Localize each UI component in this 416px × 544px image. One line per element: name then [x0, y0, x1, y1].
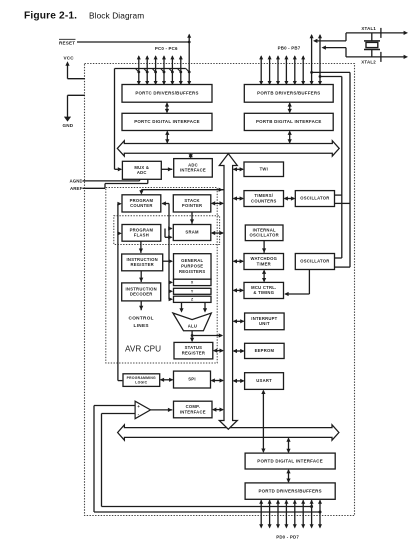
pin PB5: [301, 55, 305, 85]
svg-text:CONTROL: CONTROL: [129, 316, 154, 321]
arrow ADC interface <-> data bus: [189, 153, 193, 159]
arrow SRAM <-> data bus: [211, 231, 224, 235]
block MCU ctrl & timing: [244, 282, 284, 298]
block PORTC drivers/buffers: [122, 85, 212, 103]
crystal Y1: [364, 33, 380, 57]
block stack pointer: [173, 195, 211, 212]
svg-text:GENERAL: GENERAL: [181, 258, 203, 263]
arrow data bus <-> watchdog timer: [233, 259, 244, 263]
ground symbol: [64, 117, 71, 122]
arrow MUX & ADC -> ADC interface: [161, 167, 172, 171]
svg-text:ADC: ADC: [188, 162, 198, 167]
wire PB6/XTAL1 to oscillators (vertical x=350): [312, 72, 350, 267]
block program counter: [122, 195, 161, 212]
wire program counter / flash to programming logic (left vertical): [118, 204, 123, 381]
block programming logic: [123, 374, 160, 387]
wire oscillator stub upper: [335, 194, 342, 196]
svg-text:PORTC DIGITAL INTERFACE: PORTC DIGITAL INTERFACE: [134, 119, 200, 124]
wire XTAL1 rail: [346, 28, 408, 38]
wire GND: [68, 95, 86, 117]
arrow data bus <-> interrupt unit: [233, 319, 245, 323]
block comparator interface: [174, 401, 213, 418]
arrow comp interface <-> data bus: [212, 408, 224, 412]
analog comparator: [135, 401, 150, 419]
arrow status register <-> data bus: [213, 349, 224, 353]
wire SRAM <-> registers (second tap): [165, 229, 173, 240]
block TWI: [244, 162, 284, 177]
svg-text:POINTER: POINTER: [182, 203, 202, 208]
arrow watchdog timer <-> MCU ctrl: [262, 270, 266, 283]
block timers/counters: [244, 191, 284, 207]
pin PC3: [161, 55, 166, 85]
arrow programming logic <-> SPI: [160, 378, 174, 382]
wire data bus -> program counter: [139, 188, 224, 195]
arrow instruction decoder -> control lines: [139, 301, 143, 310]
arrow PORTB drivers <-> digital interface: [288, 102, 292, 113]
svg-text:PROGRAMMING: PROGRAMMING: [127, 376, 156, 380]
svg-text:MCU CTRL.: MCU CTRL.: [251, 285, 276, 290]
wire PB7/XTAL2 to oscillators (vertical x=341.8): [320, 77, 342, 259]
svg-text:XTAL1: XTAL1: [361, 26, 376, 31]
arrow data bus <-> PORTD digital interface: [286, 437, 290, 453]
block instruction register: [122, 254, 163, 271]
chip boundary (dashed): [85, 64, 355, 516]
pin PD2: [276, 500, 280, 529]
block ADC interface: [174, 159, 213, 178]
pin PB0: [259, 55, 263, 85]
svg-text:Y: Y: [191, 289, 194, 293]
memory sub-boundary (dashed, flash+sram): [114, 216, 220, 245]
svg-text:LINES: LINES: [134, 323, 149, 328]
wire XTAL1 to pin PB6: [313, 33, 346, 43]
wire RESET to PC6 pin: [77, 41, 191, 44]
svg-text:Block Diagram: Block Diagram: [89, 10, 144, 20]
wire oscillator (main) -> MCU ctrl & timing: [284, 270, 309, 297]
bus central vertical data bus: [219, 154, 237, 430]
arrows Z register -> ALU inputs: [179, 302, 207, 312]
arrow data bus <-> timers/counters: [233, 196, 244, 200]
svg-text:+: +: [137, 404, 140, 409]
svg-text:PORTD DIGITAL INTERFACE: PORTD DIGITAL INTERFACE: [257, 458, 323, 463]
arrow internal oscillator -> watchdog timer: [262, 241, 266, 253]
svg-text:ADC: ADC: [137, 170, 147, 175]
pin PD7: [318, 500, 322, 529]
block PORTB digital interface: [244, 113, 333, 130]
pin PB3: [284, 55, 288, 85]
svg-text:PROGRAM: PROGRAM: [130, 227, 154, 232]
block oscillator (main): [295, 254, 334, 270]
arrow comparator -> comp interface: [151, 408, 173, 412]
svg-text:Figure 2-1.: Figure 2-1.: [24, 10, 77, 21]
block PORTD drivers/buffers: [245, 483, 335, 499]
svg-text:REGISTER: REGISTER: [182, 350, 205, 355]
AVR CPU boundary (dashed): [106, 188, 217, 364]
arrow stack pointer -> SRAM: [190, 212, 194, 224]
wire VCC supply: [65, 61, 85, 78]
svg-text:AVR CPU: AVR CPU: [125, 344, 161, 353]
register Z: [174, 296, 212, 302]
svg-text:WATCHDOG: WATCHDOG: [251, 256, 278, 261]
pin PD1: [268, 500, 272, 529]
block MUX & ADC: [122, 161, 161, 179]
wire programming-access rail (top horizontal + left vertical to Programming Logic): [115, 69, 186, 170]
svg-text:PURPOSE: PURPOSE: [181, 264, 203, 269]
svg-text:PORTB DIGITAL INTERFACE: PORTB DIGITAL INTERFACE: [256, 119, 322, 124]
block general purpose registers: [174, 254, 212, 280]
wire ALU -> status register and data bus: [190, 331, 223, 342]
title: Figure 2-1. Block Diagram: [24, 10, 144, 21]
block instruction decoder: [122, 283, 161, 301]
pin PD5: [301, 500, 305, 529]
svg-text:PD0 - PD7: PD0 - PD7: [276, 534, 299, 539]
block interrupt unit: [245, 313, 285, 330]
block SPI: [174, 371, 211, 388]
block EEPROM: [245, 343, 285, 358]
label control lines: [129, 316, 154, 328]
bus top horizontal data bus: [117, 141, 339, 156]
wire XTAL2 rail: [346, 52, 408, 62]
svg-text:OSCILLATOR: OSCILLATOR: [250, 233, 279, 238]
pin PD3: [284, 500, 288, 529]
svg-text:COMP.: COMP.: [186, 404, 200, 409]
pin PC5: [177, 55, 182, 85]
block oscillator (timer): [295, 191, 334, 207]
pin PC6: [186, 34, 191, 86]
pin PD4: [293, 500, 297, 529]
arrow into program counter (left): [117, 202, 121, 206]
svg-text:TWI: TWI: [260, 166, 268, 171]
svg-text:OSCILLATOR: OSCILLATOR: [300, 196, 329, 201]
pin PC2: [152, 55, 157, 85]
svg-text:MUX &: MUX &: [134, 165, 149, 170]
svg-text:COUNTERS: COUNTERS: [251, 198, 277, 203]
svg-text:USART: USART: [256, 378, 272, 383]
pin PB6: [310, 34, 314, 85]
svg-text:X: X: [191, 280, 194, 284]
svg-text:STACK: STACK: [184, 198, 199, 203]
arrow PORTB digital interface <-> data bus: [288, 131, 292, 144]
block status register: [174, 342, 213, 359]
block watchdog timer: [244, 254, 284, 270]
arrow stack pointer <-> data bus: [211, 201, 224, 205]
ALU: [173, 313, 211, 331]
block program flash: [122, 225, 161, 242]
svg-text:& TIMING: & TIMING: [253, 290, 274, 295]
svg-text:INTERNAL: INTERNAL: [253, 227, 276, 232]
arrows register feed into X Y Z: [169, 280, 173, 301]
arrow data bus <-> EEPROM: [233, 349, 245, 353]
arrow PORTC digital interface <-> data bus: [165, 131, 169, 144]
arrow data bus <-> TWI: [233, 167, 244, 171]
svg-text:VCC: VCC: [64, 56, 75, 61]
wire comparator - input from pin PD6: [102, 414, 314, 509]
arrow SPI <-> data bus: [211, 378, 224, 382]
svg-text:FLASH: FLASH: [134, 233, 149, 238]
arrow timers/counters <-> oscillator: [284, 196, 296, 200]
pin PD0: [259, 500, 263, 529]
arrow PORTD digital interface <-> drivers: [286, 469, 290, 483]
wire program counter <-> SRAM: [162, 201, 173, 299]
svg-text:OSCILLATOR: OSCILLATOR: [300, 259, 329, 264]
wire rail to MUX & ADC: [115, 167, 123, 171]
svg-text:UNIT: UNIT: [259, 321, 270, 326]
RESET label (overlined): [59, 39, 76, 45]
wire oscillator stub lower: [335, 202, 351, 204]
svg-text:PB0 - PB7: PB0 - PB7: [278, 46, 301, 51]
bus bottom horizontal data bus: [118, 425, 339, 440]
svg-text:ALU: ALU: [188, 323, 198, 328]
block PORTB drivers/buffers: [244, 85, 333, 103]
svg-text:RESET: RESET: [59, 40, 75, 45]
svg-text:COUNTER: COUNTER: [130, 203, 152, 208]
svg-text:AGND: AGND: [70, 178, 83, 183]
svg-text:TIMERS/: TIMERS/: [254, 193, 273, 198]
svg-text:LOGIC: LOGIC: [135, 380, 147, 384]
svg-text:STATUS: STATUS: [185, 345, 203, 350]
pin PC1: [144, 55, 149, 85]
svg-text:GND: GND: [63, 123, 74, 128]
svg-text:AREF: AREF: [70, 186, 83, 191]
wire AGND to MUX & ADC: [83, 179, 140, 181]
arrow data bus <-> USART: [233, 379, 245, 383]
svg-text:PC0 - PC6: PC0 - PC6: [155, 46, 178, 51]
svg-text:DECODER: DECODER: [130, 292, 153, 297]
block PORTD digital interface: [245, 453, 335, 469]
pin PB2: [276, 55, 280, 85]
svg-text:REGISTER: REGISTER: [130, 262, 153, 267]
block internal oscillator: [245, 225, 283, 241]
svg-text:INTERFACE: INTERFACE: [180, 409, 206, 414]
svg-text:INTERFACE: INTERFACE: [180, 168, 206, 173]
svg-text:INTERRUPT: INTERRUPT: [251, 316, 277, 321]
wire XTAL2 to pin PB7: [322, 46, 347, 57]
svg-text:PROGRAM: PROGRAM: [130, 198, 154, 203]
pin PB7: [318, 34, 322, 85]
svg-text:PORTC DRIVERS/BUFFERS: PORTC DRIVERS/BUFFERS: [135, 90, 198, 95]
block PORTC digital interface: [122, 113, 212, 130]
svg-text:INSTRUCTION: INSTRUCTION: [126, 286, 157, 291]
svg-text:TIMER: TIMER: [257, 261, 271, 266]
arrow program flash -> instruction register: [139, 241, 143, 253]
block USART: [245, 373, 284, 390]
arrow PORTC drivers <-> digital interface: [165, 102, 169, 113]
wire comparator + input from pin PD7: [94, 406, 322, 514]
pin PC0: [135, 55, 140, 85]
svg-text:REGISTERS: REGISTERS: [179, 269, 205, 274]
pin PB4: [293, 55, 297, 85]
svg-text:SRAM: SRAM: [185, 230, 199, 235]
pin PB1: [268, 55, 272, 85]
wire instruction register -> general purpose registers: [163, 259, 173, 263]
svg-text:PORTB DRIVERS/BUFFERS: PORTB DRIVERS/BUFFERS: [257, 90, 320, 95]
arrow data bus <-> MCU ctrl & timing: [233, 288, 244, 292]
svg-text:XTAL2: XTAL2: [361, 60, 376, 65]
svg-text:EEPROM: EEPROM: [255, 348, 275, 353]
arrow instruction register -> instruction decoder: [139, 271, 143, 282]
wire USART <-> PORTD: [261, 390, 265, 453]
register Y: [174, 288, 212, 294]
svg-text:INSTRUCTION: INSTRUCTION: [127, 257, 158, 262]
pin PD6: [310, 500, 314, 529]
pin PC4: [169, 55, 174, 85]
arrow into program flash (left): [117, 231, 121, 235]
block SRAM: [173, 225, 211, 241]
svg-text:SPI: SPI: [188, 377, 196, 382]
svg-text:PORTD DRIVERS/BUFFERS: PORTD DRIVERS/BUFFERS: [258, 488, 321, 493]
register X: [174, 279, 212, 285]
wire AREF to MUX & ADC: [83, 179, 148, 189]
